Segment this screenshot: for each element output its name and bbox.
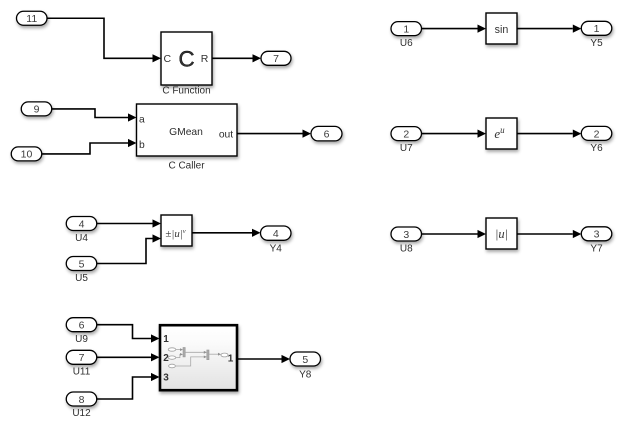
svg-text:Y4: Y4 <box>270 243 283 254</box>
inport 3 <box>391 227 422 241</box>
wire inport 11 to C Function <box>47 18 161 62</box>
svg-text:U7: U7 <box>400 143 413 154</box>
wire C Caller out to outport 6 <box>237 130 311 138</box>
block signed power <box>161 215 192 246</box>
svg-text:7: 7 <box>79 352 85 364</box>
svg-text:Y8: Y8 <box>299 369 312 380</box>
inport 11 <box>17 11 48 25</box>
svg-text:GMean: GMean <box>169 127 203 138</box>
inport 4 <box>66 217 97 231</box>
subsystem preview inport A <box>168 348 176 351</box>
block subsystem <box>160 325 237 390</box>
svg-text:5: 5 <box>302 354 308 366</box>
svg-text:C: C <box>164 53 172 65</box>
svg-text:out: out <box>219 130 233 141</box>
svg-text:2: 2 <box>594 128 600 140</box>
wire inport 2 to exp block <box>422 130 487 138</box>
wire signed power to outport 4 <box>192 229 261 237</box>
wire C Function to outport 7 <box>212 54 261 62</box>
svg-text:1: 1 <box>228 354 234 365</box>
wire inport 7 to subsystem port 2 <box>97 353 160 361</box>
wire inport 10 to port b <box>42 139 137 154</box>
svg-text:U4: U4 <box>75 233 88 244</box>
outport 7 <box>261 51 291 65</box>
block abs <box>486 218 517 249</box>
svg-text:C Caller: C Caller <box>168 160 205 171</box>
svg-text:U9: U9 <box>75 334 88 345</box>
svg-text:1: 1 <box>403 23 409 35</box>
svg-text:4: 4 <box>79 218 85 230</box>
svg-text:|u|: |u| <box>495 227 508 241</box>
subsystem preview inport B <box>168 356 176 359</box>
subsystem preview wire mux1 to mux2 <box>185 351 207 354</box>
subsystem preview outport <box>221 353 228 357</box>
outport 4 <box>261 226 292 240</box>
svg-text:4: 4 <box>273 228 279 240</box>
svg-text:1: 1 <box>594 23 600 35</box>
subsystem preview wire B to mux1 <box>176 353 183 358</box>
inport 2 <box>391 127 422 141</box>
wire inport 8 to subsystem port 3 <box>97 373 160 399</box>
svg-text:6: 6 <box>79 320 85 332</box>
subsystem preview mux 1 <box>183 348 185 357</box>
outport 6 <box>311 126 342 140</box>
inport 8 <box>66 392 97 406</box>
svg-text:7: 7 <box>273 53 279 65</box>
wire exp block to outport 2 <box>517 130 581 138</box>
svg-text:±|u|v: ±|u|v <box>165 228 185 240</box>
svg-text:2: 2 <box>403 128 409 140</box>
subsystem preview wire A to mux1 <box>176 348 183 351</box>
inport 6 <box>66 318 97 332</box>
wire inport 1 to sin block <box>422 25 487 33</box>
svg-text:3: 3 <box>163 373 169 384</box>
svg-text:a: a <box>139 115 145 126</box>
subsystem preview wire mux2 to outport <box>209 353 221 356</box>
svg-text:1: 1 <box>163 334 169 345</box>
inport 10 <box>11 147 42 161</box>
wire sin block to outport 1 <box>517 25 581 33</box>
svg-text:5: 5 <box>79 258 85 270</box>
svg-text:9: 9 <box>34 104 40 116</box>
inport 7 <box>66 350 97 364</box>
svg-text:R: R <box>201 53 209 65</box>
svg-text:Y5: Y5 <box>590 38 603 49</box>
outport 5 <box>290 352 321 366</box>
svg-text:3: 3 <box>403 229 409 241</box>
svg-text:U11: U11 <box>73 367 91 378</box>
block exp <box>486 118 517 149</box>
outport 2 <box>581 126 612 140</box>
outport 3 <box>581 227 612 241</box>
svg-text:U6: U6 <box>400 38 413 49</box>
wire inport 9 to port a <box>52 109 137 122</box>
svg-text:U12: U12 <box>72 408 91 419</box>
svg-text:Y7: Y7 <box>590 243 603 254</box>
svg-text:C Function: C Function <box>162 86 210 97</box>
wire inport 5 to signed power block <box>97 234 161 263</box>
wire subsystem to outport 5 <box>237 355 290 363</box>
wire inport 6 to subsystem port 1 <box>97 325 160 343</box>
svg-text:11: 11 <box>26 13 37 25</box>
svg-text:U8: U8 <box>400 243 413 254</box>
block sin <box>486 13 517 44</box>
subsystem preview wire C to mux2 <box>176 356 207 367</box>
wire abs block to outport 3 <box>517 230 582 238</box>
svg-text:6: 6 <box>324 129 330 141</box>
svg-text:U5: U5 <box>75 273 88 284</box>
subsystem preview mux 2 <box>207 350 209 360</box>
svg-text:C: C <box>178 46 194 71</box>
wire inport 4 to signed power block <box>97 219 161 227</box>
svg-text:10: 10 <box>21 149 33 161</box>
svg-text:8: 8 <box>79 394 85 406</box>
wire inport 3 to abs block <box>422 230 487 238</box>
block C Caller GMean <box>137 104 238 156</box>
inport 9 <box>21 102 52 116</box>
inport 5 <box>66 257 97 271</box>
svg-text:Y6: Y6 <box>590 143 603 154</box>
block C Function U1 <box>161 32 212 85</box>
subsystem preview inport C <box>169 364 176 368</box>
svg-text:3: 3 <box>594 229 600 241</box>
inport 1 <box>391 22 422 36</box>
outport 1 <box>581 21 612 35</box>
svg-text:sin: sin <box>495 24 509 36</box>
svg-text:b: b <box>139 140 145 151</box>
